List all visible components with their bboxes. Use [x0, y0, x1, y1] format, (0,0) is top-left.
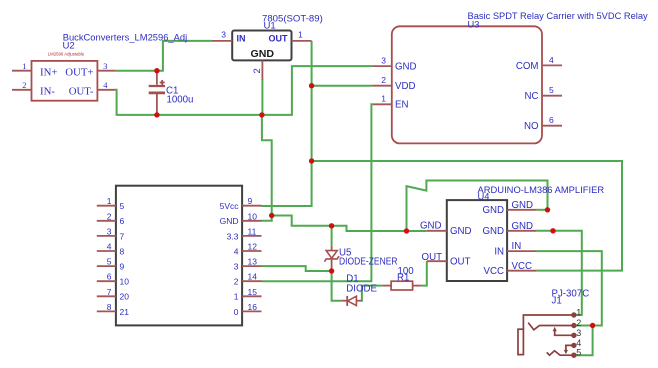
junction C1 bottom rail: [154, 112, 159, 117]
svg-text:1000u: 1000u: [167, 94, 194, 105]
svg-text:3: 3: [221, 30, 226, 40]
svg-text:GND: GND: [512, 200, 534, 211]
U5 label: [339, 247, 398, 267]
MCU pin 5: [97, 257, 125, 272]
wire ground jog down to MCU pin10 node: [262, 115, 272, 216]
svg-text:OUT+: OUT+: [65, 67, 93, 79]
svg-text:OUT: OUT: [269, 34, 289, 44]
relay carrier U3: [392, 26, 542, 143]
MCU pin 7: [97, 287, 129, 302]
svg-text:ARDUINO-LM386 AMPLIFIER: ARDUINO-LM386 AMPLIFIER: [478, 184, 605, 195]
U4 right pin IN: [507, 241, 536, 252]
wire U3 EN to MCU pin14: [261, 104, 373, 281]
svg-text:GND: GND: [420, 220, 442, 231]
junction U4 GND2: [550, 228, 555, 233]
svg-text:1: 1: [298, 30, 303, 40]
svg-text:15: 15: [248, 287, 258, 297]
svg-text:9: 9: [248, 196, 253, 206]
svg-text:GND: GND: [482, 226, 504, 237]
zener diode U5: [324, 246, 339, 271]
svg-text:11: 11: [248, 226, 257, 236]
svg-text:DIODE-ZENER: DIODE-ZENER: [339, 256, 398, 267]
wire +5V: U1 OUT down to MCU 5Vcc: [261, 41, 311, 206]
svg-text:GND: GND: [395, 62, 417, 73]
U3 label: [468, 11, 648, 30]
J1 label: [552, 288, 590, 306]
svg-text:5: 5: [107, 257, 112, 267]
svg-text:2: 2: [576, 318, 581, 328]
U1 pin 2 (GND): [252, 60, 263, 80]
U4 right pin GND1: [507, 200, 536, 211]
wire +5V branch to U4 VCC: [312, 161, 622, 271]
wire U2 OUT+ to U1 IN (via C1 top): [115, 41, 212, 71]
svg-text:4: 4: [549, 55, 554, 65]
svg-text:5: 5: [576, 348, 581, 358]
MCU pin 4: [97, 242, 125, 257]
svg-text:VCC: VCC: [484, 266, 504, 277]
amplifier U4: [447, 200, 507, 281]
svg-text:COM: COM: [516, 61, 539, 72]
MCU pin 13 (3): [234, 257, 262, 272]
U3 pin 1 (EN): [373, 94, 392, 105]
svg-text:1: 1: [22, 61, 26, 71]
svg-text:5: 5: [549, 85, 554, 95]
U1 pin 1 (OUT): [292, 30, 312, 41]
U2 pin 3: [97, 61, 115, 71]
U1 label: [262, 13, 323, 31]
svg-text:OUT-: OUT-: [69, 86, 94, 98]
svg-text:6: 6: [107, 272, 112, 282]
regulator U1 7805: [232, 31, 291, 61]
svg-text:VCC: VCC: [512, 261, 532, 272]
J1 pin 2: [572, 318, 582, 328]
junction C1 top: [154, 68, 159, 73]
svg-text:21: 21: [120, 307, 130, 317]
svg-text:IN-: IN-: [40, 86, 55, 98]
svg-text:GND: GND: [220, 216, 239, 226]
svg-text:4: 4: [234, 246, 239, 256]
svg-text:13: 13: [248, 257, 258, 267]
junction jack pin2: [590, 323, 595, 328]
U1 pin 3 (IN): [212, 30, 232, 41]
svg-text:4: 4: [107, 242, 112, 252]
C1 label: [166, 86, 193, 106]
junction zener bottom: [329, 268, 334, 273]
buck converter U2: [32, 52, 98, 101]
wire R1 to U4 OUT: [421, 261, 426, 285]
svg-text:10: 10: [120, 277, 130, 287]
svg-text:U2: U2: [63, 41, 75, 52]
svg-text:U3: U3: [468, 19, 480, 29]
svg-text:10: 10: [248, 211, 258, 221]
resistor R1: [382, 281, 421, 290]
U2 label: [63, 32, 188, 51]
svg-text:GND: GND: [482, 205, 504, 216]
wire +5V branch to U3 VDD: [312, 85, 373, 87]
U3 pin 5 (NC): [542, 85, 562, 96]
wire ground zigzag to U4 right GND1: [407, 181, 548, 232]
junction +5V node: [309, 158, 314, 163]
junction zener top: [329, 223, 334, 228]
MCU pin 8: [97, 302, 129, 317]
svg-text:4: 4: [576, 338, 581, 348]
svg-text:3: 3: [234, 262, 239, 272]
svg-text:4: 4: [103, 80, 108, 90]
U3 pin 4 (COM): [542, 55, 562, 66]
U2 pin 4: [97, 80, 115, 90]
diode D1: [342, 296, 362, 306]
svg-text:9: 9: [120, 262, 125, 272]
svg-text:8: 8: [107, 302, 112, 312]
svg-text:6: 6: [120, 216, 125, 226]
U3 pin 6 (NO): [542, 115, 562, 126]
svg-text:2: 2: [381, 75, 386, 85]
wire zener bottom to D1 anode: [332, 271, 342, 301]
MCU pin 1: [97, 196, 125, 211]
svg-text:IN: IN: [237, 34, 246, 44]
wire ground to U4 left GND: [272, 216, 427, 232]
svg-text:OUT: OUT: [422, 252, 443, 263]
U4 right pin VCC: [507, 261, 536, 272]
junction U3 VDD: [309, 83, 314, 88]
svg-text:VDD: VDD: [395, 81, 415, 92]
svg-text:GND: GND: [512, 221, 534, 232]
junction ground at U4: [404, 228, 409, 233]
svg-text:6: 6: [549, 115, 554, 125]
svg-text:1: 1: [576, 308, 581, 318]
svg-text:3: 3: [576, 328, 581, 338]
MCU pin 2: [97, 211, 125, 226]
U4 label: [478, 184, 605, 202]
svg-text:IN: IN: [494, 247, 504, 258]
U2 pin 2: [12, 80, 32, 90]
svg-text:BuckConverters_LM2596_Adj: BuckConverters_LM2596_Adj: [63, 32, 188, 43]
svg-text:8: 8: [120, 246, 125, 256]
J1 pin 4: [572, 338, 582, 348]
U4 right pin GND2: [507, 221, 536, 232]
svg-text:DIODE: DIODE: [346, 284, 377, 295]
U4 left pin GND: [420, 220, 447, 231]
svg-text:LM2596 Adjustable: LM2596 Adjustable: [48, 52, 85, 57]
svg-text:7: 7: [107, 287, 112, 297]
capacitor C1: [149, 71, 165, 115]
wire MCU pin13 to zener bottom: [261, 266, 331, 271]
svg-text:2: 2: [252, 68, 263, 73]
svg-text:IN+: IN+: [40, 67, 57, 79]
svg-text:IN: IN: [512, 241, 522, 252]
svg-text:U4: U4: [478, 191, 490, 202]
MCU pin 9 (5Vcc): [220, 196, 262, 211]
MCU pin 12 (4): [234, 242, 262, 257]
MCU pin 10 (GND): [220, 211, 262, 226]
R1 label: [397, 266, 414, 284]
svg-text:GND: GND: [251, 49, 275, 60]
svg-text:7: 7: [120, 231, 125, 241]
svg-text:2: 2: [107, 211, 112, 221]
svg-text:3: 3: [107, 226, 112, 236]
wire MCU pin10 GND link: [261, 216, 271, 221]
U3 pin 2 (VDD): [372, 75, 392, 86]
J1 pin 3: [572, 328, 582, 338]
audio jack J1: [518, 315, 572, 355]
junction MCU GND node: [269, 213, 274, 218]
wire ground rail: U2 OUT- to U3 GND: [115, 66, 372, 115]
svg-text:3: 3: [381, 56, 386, 66]
svg-text:U1: U1: [264, 21, 276, 32]
junction U4 GND1: [545, 207, 550, 212]
wire U4 GND1 stub: [536, 209, 547, 211]
svg-text:14: 14: [248, 272, 258, 282]
svg-text:5Vcc: 5Vcc: [220, 201, 240, 211]
MCU pin 16 (0): [234, 302, 262, 317]
svg-text:2: 2: [234, 277, 239, 287]
wire U4 GND2 to jack pin1: [536, 231, 581, 315]
svg-text:1: 1: [107, 196, 112, 206]
wire U1 GND down to rail: [261, 80, 263, 115]
wire U4 IN to jack pin2: [536, 251, 601, 325]
svg-text:1: 1: [381, 94, 386, 104]
J1 pin 1: [572, 308, 582, 318]
svg-text:1: 1: [234, 292, 239, 302]
D1 label: [346, 273, 377, 294]
junction U1 GND rail: [259, 112, 264, 117]
svg-text:J1: J1: [552, 296, 562, 307]
svg-text:NO: NO: [524, 121, 539, 132]
svg-text:OUT: OUT: [450, 257, 471, 268]
U2 pin 1: [12, 61, 32, 71]
svg-text:2: 2: [22, 80, 26, 90]
svg-text:3: 3: [103, 61, 107, 71]
MCU pin 14 (2): [234, 272, 262, 287]
svg-text:12: 12: [248, 242, 258, 252]
wire D1 cathode to R1: [362, 286, 383, 301]
svg-text:EN: EN: [395, 100, 408, 111]
svg-text:R1: R1: [397, 273, 409, 284]
U3 pin 3 (GND): [372, 56, 392, 66]
MCU pin 11 (3.3): [227, 226, 262, 241]
J1 pin 5: [572, 348, 582, 358]
wire zener U5 top to ground: [331, 226, 333, 246]
svg-text:20: 20: [120, 292, 130, 302]
svg-text:5: 5: [120, 201, 125, 211]
MCU pin 3: [97, 226, 125, 241]
wire jack pin2 branch to pin5: [576, 326, 593, 356]
MCU pin 15 (1): [234, 287, 262, 302]
svg-text:Basic SPDT Relay Carrier with: Basic SPDT Relay Carrier with 5VDC Relay: [468, 11, 648, 21]
MCU pin 6: [97, 272, 129, 287]
svg-text:0: 0: [234, 307, 239, 317]
microcontroller IC: [116, 186, 242, 326]
svg-text:GND: GND: [450, 226, 472, 237]
svg-text:16: 16: [248, 302, 258, 312]
svg-text:NC: NC: [525, 91, 539, 102]
svg-text:3.3: 3.3: [227, 231, 239, 241]
U4 left pin OUT: [422, 252, 447, 263]
